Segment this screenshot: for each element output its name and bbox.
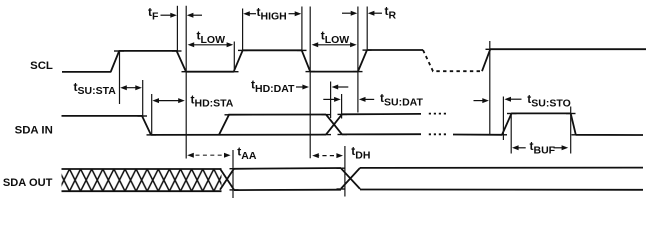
SDA OUT corner ticks [230,168,346,190]
vline SDA X1 start [330,82,332,119]
label tHIGH with arrows [243,5,301,22]
SDA IN waveform: start high, fall (START condition) [62,116,327,135]
vline SDA OUT X1 [232,150,234,198]
vline SCL rise1 top [119,50,121,104]
vertical measurement lines [120,6,571,198]
SDA IN parallel lines after X1 [342,114,421,134]
vline SDA fall1 end [151,94,153,136]
vline SDA OUT X2 [344,146,346,197]
SDA IN stop pulse [453,113,643,135]
vline SCL fall2 end long [309,7,311,159]
label tHD:DAT with arrows [251,77,348,95]
vline SDA stop rise bottom [502,97,504,141]
vline SCL fall2 start [301,7,303,51]
SDA IN dots bottom [429,133,447,135]
vline SCL rise3 bottom [357,7,359,113]
SDA OUT hatched band [62,169,222,191]
SDA OUT crossover X2 [341,168,360,189]
label tLOW 1 with arrow [188,29,234,48]
vline SCL fall1 end long [185,6,187,159]
SCL waveform solid part [62,50,423,72]
SDA IN corner ticks [138,114,582,135]
label tHD:STA with arrow [152,92,233,109]
label tAA with dashed arrow [187,144,257,162]
SDA IN crossover X1 [326,114,342,134]
vline SCL rise2 top [242,9,244,51]
arrow tF leftside [187,13,202,18]
vline SCL rise2 bottom [233,42,235,73]
vline SCL fall1 start [176,6,178,52]
vline SDA fall1 start [142,80,144,117]
label tSU:STA with arrow [74,80,142,97]
vline SCL rise4 top [489,41,491,135]
label tSU:STO with arrows [474,92,571,109]
svg-text:SCL: SCL [30,60,53,72]
vline SDA stop fall [570,107,572,154]
label tBUF with arrows [512,139,568,156]
label tSU:DAT with arrows [323,91,423,108]
vline SCL rise3 top [366,7,368,51]
SCL corner ticks [114,49,495,71]
vline SDA X1 end [341,94,343,119]
SDA OUT parallel lines right [360,168,643,190]
vline SDA stop rise top [510,113,512,154]
SDA IN rise during SCL low [219,115,326,135]
SCL rise 4 and final high [482,49,646,71]
SCL dashed fall and low [423,50,482,71]
SDA IN dots top [429,113,447,115]
svg-text:SDA OUT: SDA OUT [3,177,53,189]
label tDH with dashed arrow [312,144,370,161]
svg-text:SDA IN: SDA IN [15,125,53,137]
label tR with arrows [342,4,397,21]
SDA OUT crossover X1 [220,169,234,190]
SDA OUT parallel lines middle [234,168,341,190]
label tLOW 2 with arrow [312,29,357,48]
arrow tF right [161,13,177,18]
